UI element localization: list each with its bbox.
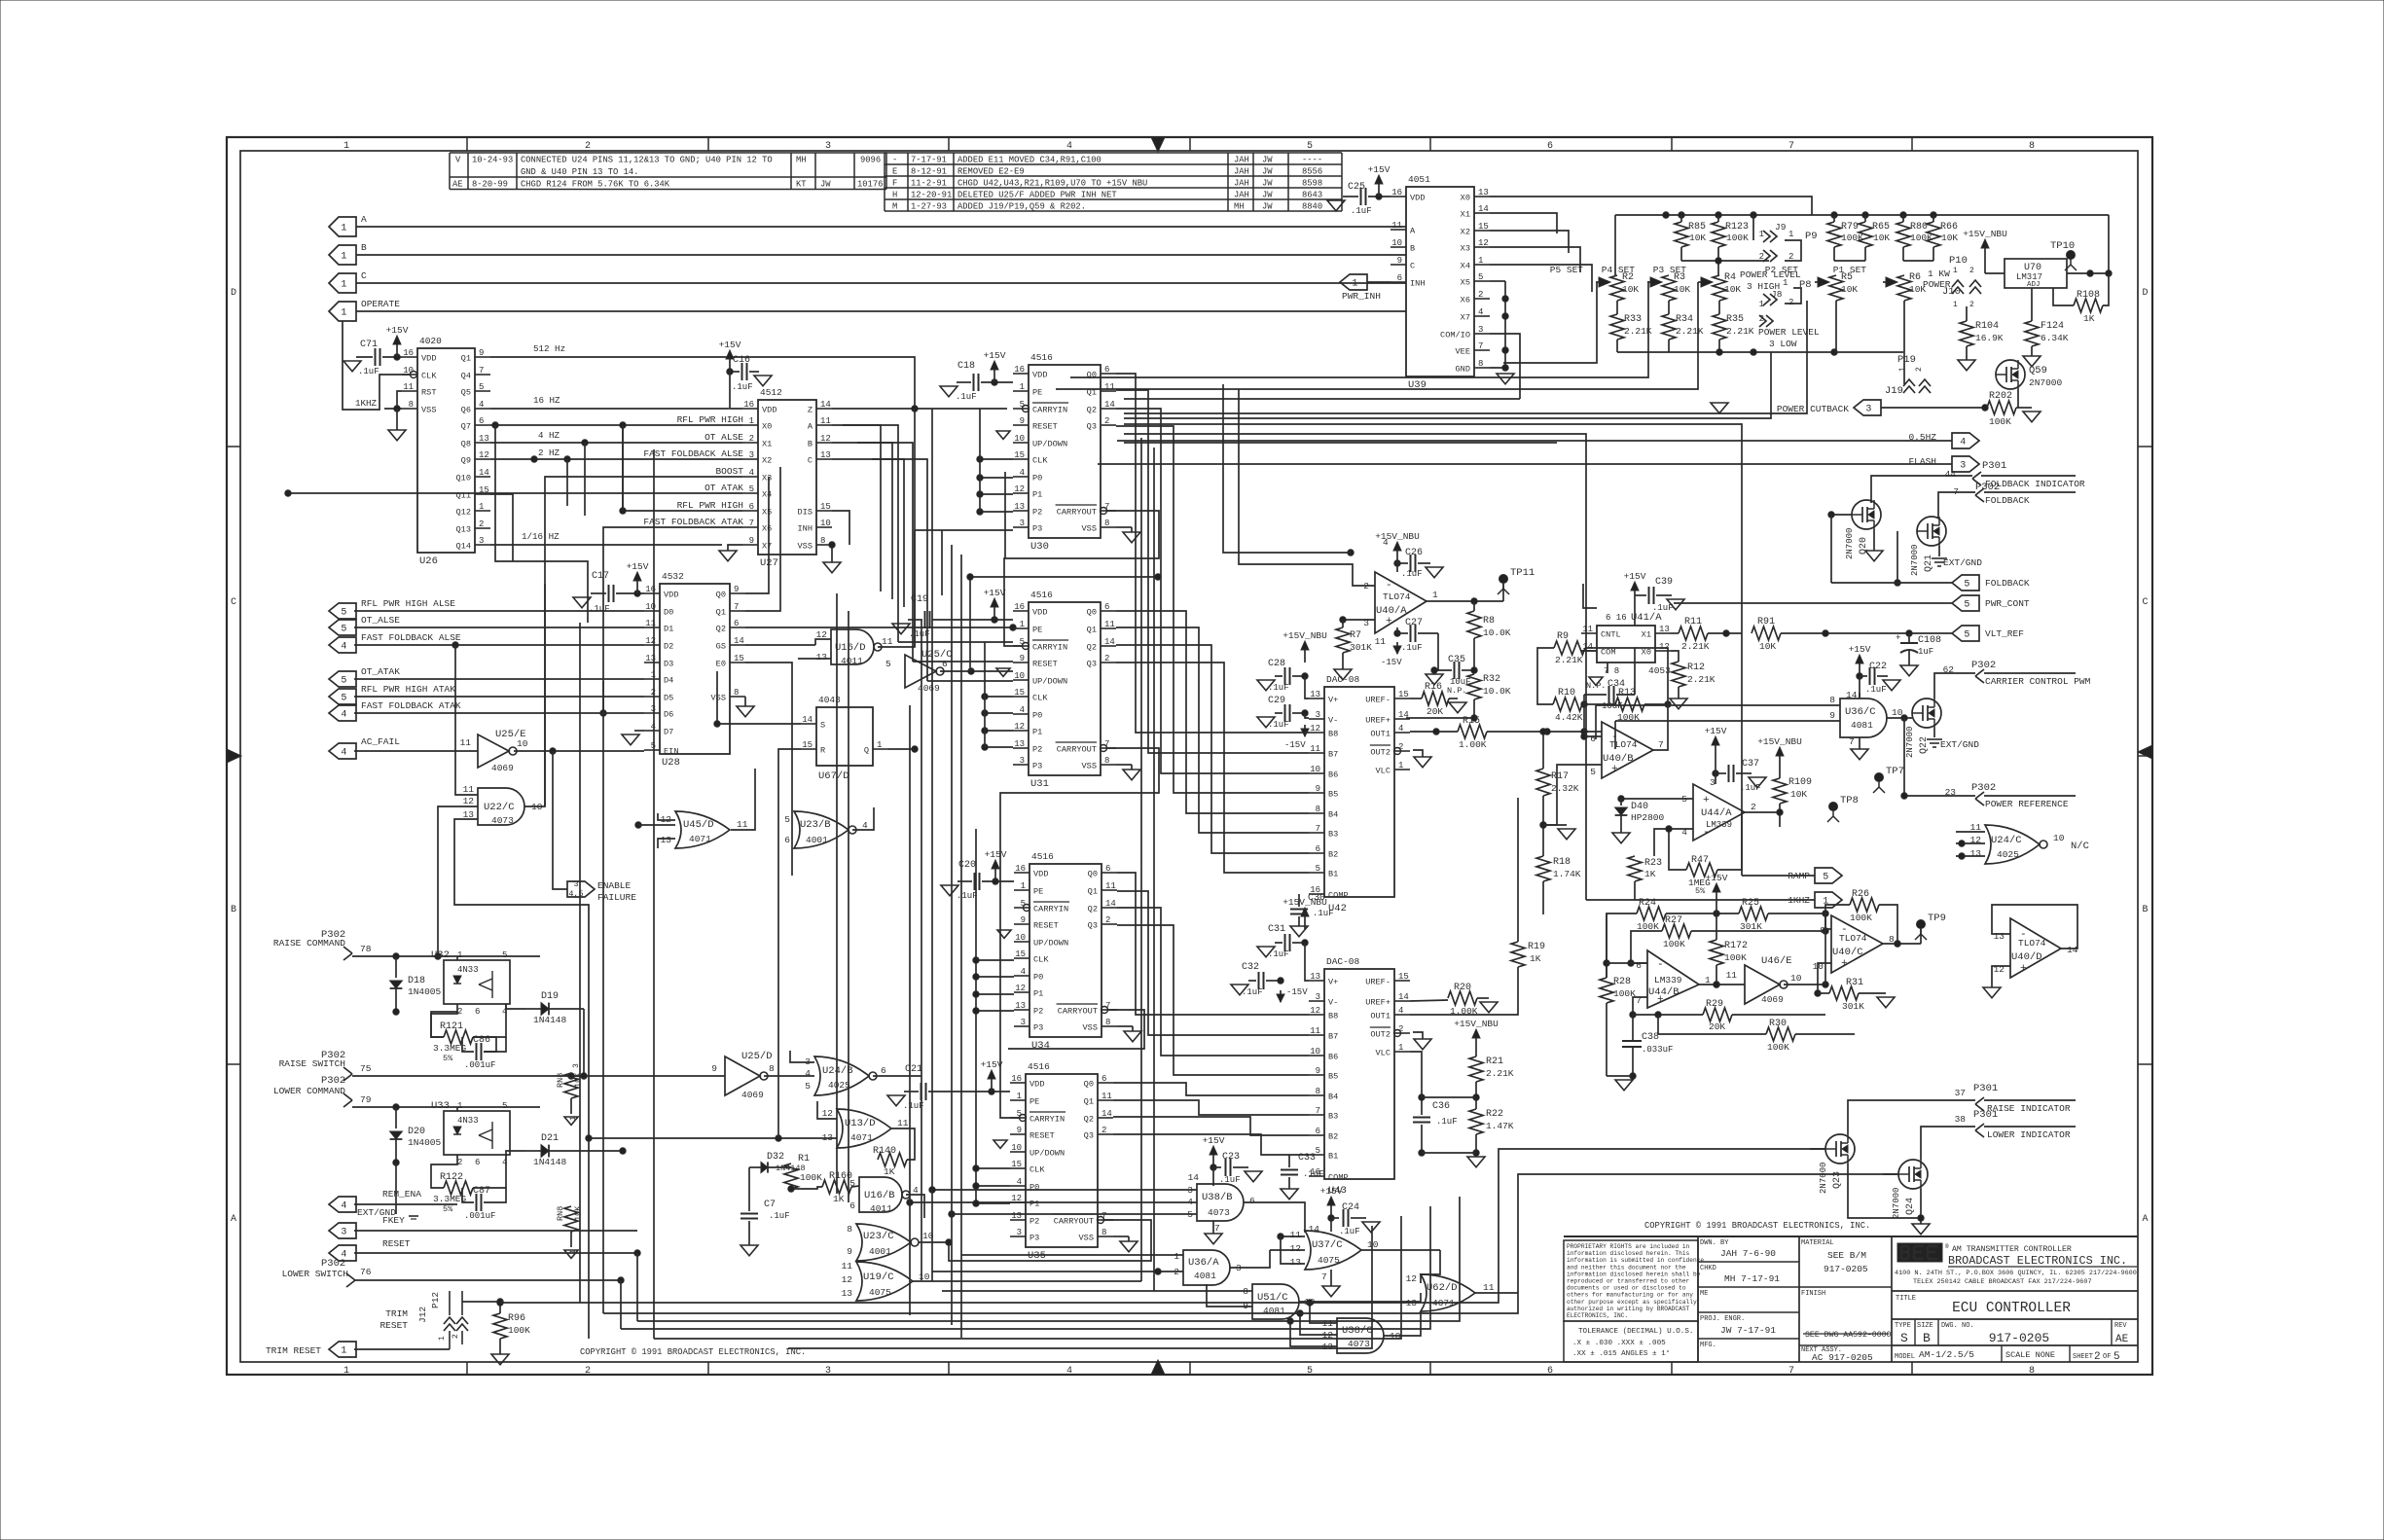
wire U38B in3 [932,1189,1197,1191]
wire U24B out [873,1075,921,1077]
wire U36A out [1230,1250,1270,1268]
wire to enable failure [553,751,567,889]
svg-text:1: 1 [479,502,484,512]
flag REM_ENA [329,1197,356,1212]
wire bundle U34 to U43 [1117,873,1309,1015]
svg-text:P3: P3 [1032,524,1042,534]
wire flash [1098,463,1952,465]
svg-text:VSS: VSS [421,406,436,415]
svg-text:12: 12 [1014,484,1025,494]
svg-text:12: 12 [479,450,489,460]
svg-text:BOOST: BOOST [715,466,743,477]
svg-text:5: 5 [1964,600,1969,611]
wire pwr_cont [1674,602,1952,604]
svg-text:7 8: 7 8 [1604,666,1619,676]
svg-text:B7: B7 [1328,1032,1338,1042]
svg-text:KT: KT [796,180,807,190]
resistor R96 [493,1313,507,1339]
svg-text:1K: 1K [2083,313,2095,324]
resistor R10 [1553,698,1582,711]
svg-text:Q4: Q4 [461,372,471,381]
wire U33 pin4 to D21 [506,1151,525,1155]
svg-text:CHGD R124 FROM 5.76K TO 6.34K: CHGD R124 FROM 5.76K TO 6.34K [521,180,670,190]
svg-text:4001: 4001 [806,835,828,845]
svg-text:79: 79 [360,1094,372,1105]
svg-text:authorized in writing by BROAD: authorized in writing by BROADCAST [1567,1306,1690,1312]
svg-text:3: 3 [1021,1018,1026,1027]
svg-text:.1uF: .1uF [909,629,930,639]
svg-text:Q1: Q1 [1088,887,1098,897]
ground R104 [1958,360,1975,371]
svg-text:P10: P10 [1949,255,1968,267]
svg-text:3: 3 [1710,777,1716,788]
-15V at C29 [1304,725,1306,736]
wire OPERATE [356,310,1406,312]
wire J9 row2 [1681,260,1769,262]
svg-text:VDD: VDD [664,591,678,600]
svg-text:R18: R18 [1553,857,1571,868]
resistor R121 [444,1030,473,1044]
svg-text:9: 9 [749,536,754,546]
svg-text:R66: R66 [1940,222,1958,233]
svg-text:CARRYOUT: CARRYOUT [1058,1007,1098,1017]
svg-text:D20: D20 [408,1127,425,1137]
svg-text:3: 3 [1865,405,1871,415]
wire U25C [940,670,1013,672]
+15V at U27 [729,358,731,372]
svg-text:2: 2 [1104,416,1109,426]
wire R15 to U40B [1487,731,1602,733]
svg-text:+15V: +15V [1705,726,1727,736]
capacitor C108 [1900,642,1918,644]
IC U27 4512 data selector [758,400,816,555]
wire U22C out [524,584,545,806]
svg-text:1.00K: 1.00K [1459,739,1487,750]
wire U38B in4 [910,1201,1197,1203]
svg-text:UREF+: UREF+ [1365,998,1391,1008]
svg-text:MFG.: MFG. [1700,1342,1716,1349]
wire U23B out [852,807,874,830]
svg-text:9: 9 [711,1063,717,1074]
svg-text:Q0: Q0 [1088,870,1098,879]
wire stair U31 left feeds [985,696,1013,698]
svg-text:1: 1 [341,224,346,234]
svg-text:other purpose except as specif: other purpose except as specifically [1567,1299,1697,1306]
resistor R79 [1827,222,1841,247]
svg-text:7: 7 [1316,1106,1320,1116]
svg-text:FAST FOLDBACK ATAK: FAST FOLDBACK ATAK [643,517,743,527]
wire VLC U43 [1410,1052,1422,1097]
svg-text:X0: X0 [762,422,772,432]
svg-text:RESET: RESET [1032,422,1058,432]
flag RESET [329,1245,356,1261]
resistor R16 [1422,692,1449,705]
svg-text:10K: 10K [1873,233,1890,243]
svg-text:2: 2 [749,434,754,444]
svg-text:VDD: VDD [1032,608,1047,618]
resistor R123 [1712,222,1725,247]
svg-text:JW: JW [1262,156,1273,165]
svg-text:VDD: VDD [1033,870,1048,879]
svg-text:R123: R123 [1725,222,1749,233]
wire pwr_inh [1367,281,1391,283]
resistor R23 [1628,856,1642,881]
svg-text:RESET: RESET [1033,921,1059,931]
trimmer R5 [1815,281,1824,283]
svg-text:B: B [1410,244,1415,254]
resistor R34 [1662,314,1676,340]
svg-text:J19: J19 [1885,385,1903,397]
+15V_NBU at C31 [1304,915,1306,929]
svg-text:U67/D: U67/D [818,770,849,782]
svg-text:4025: 4025 [1997,849,2019,860]
svg-text:4: 4 [1960,438,1966,448]
svg-text:P2 SET: P2 SET [1765,265,1799,275]
svg-text:S: S [1900,1331,1908,1345]
svg-text:2: 2 [1478,290,1483,300]
svg-text:P4 SET: P4 SET [1602,265,1636,275]
optocoupler U33 4N33 [444,1111,510,1155]
wire stair U27B [857,443,892,599]
svg-text:X0: X0 [1461,194,1470,203]
op-amp U40/A TL074 [1375,572,1427,633]
svg-text:9: 9 [734,585,739,594]
svg-text:7: 7 [1849,736,1855,747]
svg-text:MODEL: MODEL [1895,1353,1915,1361]
svg-text:J9: J9 [1775,222,1787,233]
svg-text:Q2: Q2 [716,625,726,634]
svg-text:+15V: +15V [984,588,1006,598]
ground U27 VSS [823,562,841,573]
wire R27 [1631,931,1662,963]
+15V_NBU at U70 [1984,247,1986,261]
svg-text:U44/B: U44/B [1648,986,1680,998]
wire C29 to V- [1305,713,1309,718]
svg-text:X7: X7 [762,542,772,552]
wire lower ind [1921,1127,1975,1160]
svg-text:4073: 4073 [491,815,514,826]
svg-text:9: 9 [479,348,484,358]
svg-text:4 HZ: 4 HZ [538,430,560,441]
svg-text:15: 15 [1478,222,1489,232]
svg-text:12: 12 [463,796,475,806]
wire U28 EIN [514,750,644,752]
wire U43 vref+ [1410,1000,1448,1001]
svg-text:15: 15 [1014,450,1025,460]
svg-text:D18: D18 [408,976,425,986]
wire X5 [623,425,742,511]
capacitor C22 [1859,663,1860,676]
transistor Q24 2N7000 [1898,1160,1928,1189]
svg-text:2: 2 [452,1334,460,1339]
svg-text:1: 1 [343,1366,349,1377]
wire U44B out [1699,984,1745,985]
svg-text:1: 1 [1953,301,1958,309]
-15V at C32 [1280,990,1282,1002]
svg-text:1: 1 [1953,267,1958,275]
svg-text:D5: D5 [664,694,673,703]
svg-text:OUT2: OUT2 [1370,1030,1391,1040]
wire Q1 512Hz [490,357,915,409]
wire carrier pwm [1934,673,1975,698]
wire U27 A [832,425,898,642]
svg-text:RESET: RESET [379,1320,408,1331]
svg-text:P0: P0 [1032,711,1042,721]
gate U16/B 4011 [859,1177,902,1212]
svg-text:7: 7 [734,602,739,612]
ground U31 VSS [1123,770,1140,780]
ground C23 [1245,1171,1262,1182]
gate U37/C 4075 [1305,1231,1361,1270]
svg-text:1: 1 [1432,590,1438,600]
ground R20 [1477,997,1489,999]
wire R26 loop [1825,905,1850,929]
svg-text:10: 10 [1367,1239,1379,1250]
svg-text:P2: P2 [1032,508,1042,518]
svg-text:4071: 4071 [850,1132,873,1143]
svg-text:C18: C18 [957,361,975,372]
svg-text:FAST FOLDBACK ALSE: FAST FOLDBACK ALSE [361,632,461,643]
svg-text:JAH: JAH [1234,167,1249,177]
comparator U44/B LM339 [1647,950,1699,1008]
svg-text:.1uF: .1uF [358,367,379,376]
svg-text:100K: 100K [508,1325,530,1336]
svg-text:+15V: +15V [1203,1135,1225,1146]
svg-text:4: 4 [1020,468,1025,478]
svg-text:U30: U30 [1030,541,1049,553]
svg-text:RAISE COMMAND: RAISE COMMAND [273,938,345,949]
svg-text:DWN. BY: DWN. BY [1700,1239,1729,1247]
svg-text:N/C: N/C [2071,841,2089,852]
svg-text:D0: D0 [664,608,673,618]
svg-text:VLC: VLC [1376,1049,1391,1058]
carryin bubble U30 [1023,406,1029,412]
svg-text:U25/D: U25/D [741,1051,773,1062]
svg-text:UREF-: UREF- [1365,978,1391,987]
svg-text:6: 6 [784,835,790,845]
svg-text:P2: P2 [1032,745,1042,755]
svg-text:R29: R29 [1706,999,1723,1010]
gate U24/C 4025 [1985,825,2040,864]
svg-text:11: 11 [897,1118,909,1128]
svg-text:+15V_NBU: +15V_NBU [1375,531,1420,542]
svg-text:2N7000: 2N7000 [1905,727,1915,758]
svg-text:2N7000: 2N7000 [1892,1188,1901,1219]
svg-text:D40: D40 [1631,802,1648,812]
svg-text:.1uF: .1uF [769,1211,790,1221]
svg-text:4075: 4075 [869,1287,891,1298]
resistor R7 [1336,627,1350,653]
svg-text:R21: R21 [1486,1057,1503,1067]
svg-text:AM TRANSMITTER CONTROLLER: AM TRANSMITTER CONTROLLER [1952,1245,2072,1254]
wire U40C out [1883,943,1921,945]
svg-text:+15V: +15V [1320,1186,1343,1197]
svg-text:COPYRIGHT © 1991 BROADCAST ELE: COPYRIGHT © 1991 BROADCAST ELECTRONICS, … [580,1347,806,1357]
wire U40B plus [1543,765,1602,825]
svg-text:.1uF: .1uF [1339,1227,1360,1236]
wire trim reset [354,1348,450,1350]
+15V at U28 [636,580,638,593]
svg-text:FKEY: FKEY [382,1215,405,1226]
trimmer R3 [1647,281,1656,283]
carryin bubble U35 [1020,1115,1027,1122]
wire U22C in12 [438,806,478,956]
svg-text:10K: 10K [1674,284,1690,295]
svg-text:AC_FAIL: AC_FAIL [361,736,400,747]
+15V_NBU at U40A [1396,550,1398,563]
wire U67D R [778,749,801,807]
svg-text:VDD: VDD [1410,194,1425,203]
sheet border frame [227,137,2152,1375]
wire U41 COM [1581,650,1597,652]
svg-text:U33: U33 [431,1100,450,1112]
wire U62D out [1475,1292,1518,1294]
svg-text:1N4148: 1N4148 [533,1015,567,1025]
svg-text:RFL PWR HIGH ATAK: RFL PWR HIGH ATAK [361,684,455,695]
capacitor C38 [1622,1040,1642,1042]
wire ramp [1742,875,1815,877]
ground at C19 [892,624,910,634]
resistor R66 [1927,222,1940,247]
capacitor C86 [476,1043,478,1060]
svg-text:11: 11 [820,416,831,426]
wire R9-R10 left [1537,648,1554,704]
svg-text:J12: J12 [417,1307,428,1323]
resistor R12 [1672,662,1685,687]
wire U32 pin4 to D19 [506,1004,525,1009]
svg-text:+: + [1611,764,1618,775]
svg-text:VLC: VLC [1376,767,1391,776]
svg-text:Q0: Q0 [1084,1080,1094,1090]
transistor Q22 2N7000 [1912,698,1941,728]
svg-text:6: 6 [1547,1366,1553,1377]
wire X1 [1490,213,1557,233]
proprietary rights notice [1564,1240,1698,1321]
svg-text:R33: R33 [1624,314,1642,325]
svg-text:2.21K: 2.21K [1726,326,1754,337]
svg-text:100K: 100K [1850,913,1872,923]
ground U34 VSS [1124,1031,1141,1042]
svg-text:12-20-91: 12-20-91 [911,191,952,200]
svg-text:JW 7-17-91: JW 7-17-91 [1720,1325,1776,1336]
svg-text:9: 9 [1021,915,1026,925]
svg-text:R19: R19 [1528,942,1545,952]
svg-text:6.34K: 6.34K [2041,333,2069,343]
svg-text:CLK: CLK [1032,456,1048,466]
svg-text:5: 5 [784,814,790,825]
wire X3 BOOST [545,477,742,584]
ground RN8a [564,1117,578,1125]
wire bundle right of U31 [1116,611,1309,813]
svg-text:10: 10 [1310,1047,1320,1057]
svg-text:UREF-: UREF- [1365,696,1391,705]
svg-text:8: 8 [1104,756,1109,766]
diode D32 1N4148 [749,1166,761,1168]
svg-text:R26: R26 [1852,889,1869,900]
svg-text:REMOVED E2-E9: REMOVED E2-E9 [957,167,1025,177]
svg-text:Q1: Q1 [716,608,726,618]
svg-text:13: 13 [1310,972,1320,982]
svg-text:Q3: Q3 [1087,422,1097,432]
svg-text:TITLE: TITLE [1896,1295,1916,1303]
svg-text:RN8: RN8 [556,1073,565,1088]
svg-text:Q7: Q7 [461,422,471,432]
svg-text:44: 44 [1945,469,1957,480]
svg-text:PE: PE [1032,626,1042,635]
box around U41 supply [1583,584,1597,608]
svg-text:A: A [1410,227,1416,236]
svg-text:14: 14 [734,636,744,646]
svg-text:5: 5 [502,1101,507,1111]
svg-text:6: 6 [749,502,754,512]
svg-text:P3: P3 [1032,762,1042,771]
svg-text:7: 7 [1478,341,1483,351]
svg-text:F124: F124 [2041,321,2064,332]
ground C24 [1362,1222,1380,1233]
svg-text:2N7000: 2N7000 [1819,1163,1828,1194]
svg-text:S: S [820,721,825,731]
svg-text:3: 3 [1478,325,1483,335]
svg-text:10.0K: 10.0K [1483,686,1511,697]
gate U24/B 4025 [814,1057,869,1095]
svg-text:.1uF: .1uF [1436,1117,1458,1127]
+15V_NBU at R21 [1475,1037,1477,1051]
svg-text:+: + [1657,994,1664,1006]
svg-text:Q2: Q2 [1084,1115,1094,1125]
svg-text:R4: R4 [1724,272,1736,283]
wire U28 GS [745,644,815,646]
svg-text:1K: 1K [884,1166,895,1177]
svg-text:16: 16 [1391,188,1402,197]
svg-text:B3: B3 [1328,830,1338,840]
svg-text:4: 4 [479,400,484,410]
+15V_NBU at C28 [1304,649,1306,663]
ground D40 [1612,833,1630,843]
wire foldback ind [1871,476,1972,503]
svg-text:VDD: VDD [762,406,777,415]
svg-text:B6: B6 [1328,1053,1338,1062]
svg-text:VDD: VDD [421,354,436,364]
svg-text:4: 4 [1398,724,1403,734]
svg-text:COPYRIGHT © 1991 BROADCAST ELE: COPYRIGHT © 1991 BROADCAST ELECTRONICS, … [1644,1221,1870,1231]
ground at C29 [1257,717,1275,728]
wire D32 R1 [748,1167,750,1206]
svg-text:2 HZ: 2 HZ [538,448,560,458]
svg-text:11: 11 [842,1261,853,1271]
revision table right [885,152,1342,154]
svg-text:RESET: RESET [382,1238,411,1249]
resistor R33 [1610,314,1624,340]
wire Q14 116Hz [490,544,722,546]
resistor R27 [1662,924,1691,938]
svg-text:10K: 10K [1689,233,1706,243]
connector flag A [329,217,356,236]
svg-text:information disclosed herein s: information disclosed herein shall be [1567,1271,1701,1277]
svg-text:8: 8 [1316,805,1320,814]
svg-text:4069: 4069 [741,1090,764,1100]
svg-text:Q0: Q0 [716,591,726,600]
resistor R19 [1511,942,1525,967]
svg-text:X7: X7 [1461,313,1470,323]
gate U13/D 4071 [837,1109,891,1148]
resistor R8 [1467,611,1481,638]
wire U28 Q2 [745,627,1013,628]
svg-text:UP/DOWN: UP/DOWN [1033,939,1068,949]
svg-text:+15V: +15V [1368,164,1391,175]
svg-text:C23: C23 [1222,1152,1240,1163]
svg-text:13: 13 [1970,848,1982,859]
wire U38C in12 [1300,1313,1337,1335]
